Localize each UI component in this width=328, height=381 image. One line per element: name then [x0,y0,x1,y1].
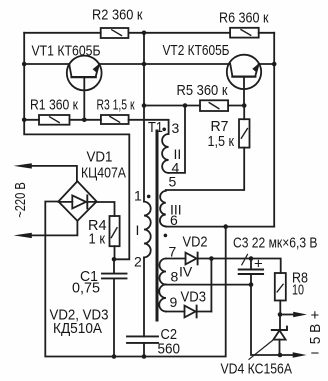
svg-text:VD4 КС156А: VD4 КС156А [221,361,293,378]
wire plus output arrow [280,314,294,316]
svg-text:C3 22 мк×6,3 В: C3 22 мк×6,3 В [233,235,318,252]
polarity dot winding IV [164,234,168,238]
transformer winding I [144,202,151,258]
label pointer line C3 [242,255,248,265]
wire plus line to C3 and R8 [211,259,280,274]
node VT1 base R1 R3 [82,118,87,123]
wire winding IV pin8 center tap to C3 minus [166,284,251,286]
node winding II pin4 riser [183,103,188,108]
svg-text:R2 360 к: R2 360 к [92,7,143,24]
node VD2 VD3 cathodes [209,256,214,261]
transformer winding IV lower half [159,285,166,312]
wire R7 bottom to winding III pin 5 [166,148,244,190]
transformer winding III [160,191,166,227]
node C3 minus [249,282,254,287]
svg-text:0,75: 0,75 [72,280,100,297]
svg-text:10: 10 [292,282,304,299]
node VT2 base R7 [242,103,247,108]
svg-text:R5 360 к: R5 360 к [177,82,228,99]
node VD4 ground [278,353,283,358]
wire AC input top with arrow [31,166,77,181]
svg-text:+: + [311,307,320,324]
svg-text:T1: T1 [148,119,163,136]
svg-text:IV: IV [179,264,193,280]
zener VD4 [279,315,281,331]
svg-text:2: 2 [134,254,142,270]
svg-text:+: + [254,256,263,273]
polarity dot winding II [162,128,166,132]
wire VT1 emitter to VT2 collector [99,63,229,65]
transformer T1 core [156,131,159,320]
resistor R2 [101,28,129,38]
wire right vertical R6 to VT2 emitter to winding III pin 6 [273,33,275,227]
wire VT2 emitter to right vertical [259,63,274,65]
wire left supply rail down to R4/C1 junction [24,33,129,259]
diode inside VD1 [58,201,96,203]
svg-text:8: 8 [171,269,179,285]
wire R1 left to rail [24,119,39,121]
wire pin6 vertical down and left ground rail and up to bridge [45,202,225,357]
svg-text:R3 1,5 к: R3 1,5 к [97,97,135,114]
node junction R2 output [142,31,147,36]
svg-text:5 В: 5 В [307,324,324,345]
capacitor C3 electrolytic [250,259,252,285]
svg-text:I: I [136,222,140,238]
svg-text:6: 6 [170,212,178,228]
wire minus output arrow [293,352,307,357]
node R8 VD4 plus output [278,312,283,317]
wire R8 bottom to plus output [279,301,281,315]
svg-text:560: 560 [158,341,181,358]
label pointer line VD4 [249,341,272,360]
node line A R5 row [142,103,147,108]
wire R7 top lead [243,106,245,120]
node right vertical VT2 [272,62,277,67]
node C2 ground [142,354,147,359]
wire top supply rail [24,32,274,34]
transformer winding IV upper half [160,259,167,285]
node line A at transistor wire [142,62,147,67]
resistor R5 [200,100,228,111]
diode VD2 [166,258,211,260]
wire C3 minus down to output minus rail [251,285,294,355]
svg-text:3: 3 [172,120,180,136]
svg-text:VT1 КТ605Б: VT1 КТ605Б [32,43,101,60]
wire R1 to VT1 base node [70,119,101,121]
capacitor C2 [127,336,158,343]
svg-text:VT2 КТ605Б: VT2 КТ605Б [163,42,230,59]
node left rail VT1 [22,62,27,67]
resistor R3 [101,115,129,124]
wire VT1 collector to left rail [24,63,69,65]
wire winding III pin 6 line [166,226,274,228]
resistor R6 [230,28,259,38]
wire base feed at y=105 R5 row [144,105,244,107]
svg-text:VD1: VD1 [87,149,113,166]
node pin6 to ground vertical [223,224,228,229]
resistor R7 [239,119,250,147]
svg-text:~220 В: ~220 В [12,182,29,218]
node C3 plus [249,256,254,261]
bridge rectifier VD1 diamond [58,181,96,221]
svg-text:1: 1 [134,188,142,204]
svg-text:5: 5 [169,174,177,190]
svg-text:VD3: VD3 [181,289,207,306]
diode VD3 [166,311,211,313]
wire VD3 cathode riser to VD2 cathode [210,259,212,312]
wire R4 top lead to bridge plus [97,202,115,216]
wire line A from R2 junction down to winding I [143,33,145,202]
svg-text:−: − [311,345,320,362]
resistor R4 [110,216,120,246]
transistor VT2 [227,55,261,89]
wire winding I pin2 down to C2 [143,257,145,336]
resistor R1 [39,115,70,125]
svg-text:9: 9 [170,294,178,310]
resistor R8 [275,273,286,301]
svg-text:КД510А: КД510А [53,320,102,337]
node C1 ground [112,354,117,359]
polarity dot winding I [147,195,151,199]
capacitor C1 [113,259,115,356]
svg-text:КЦ407А: КЦ407А [81,165,126,182]
wire AC input bottom with arrow [31,221,77,236]
svg-text:VD2: VD2 [183,234,208,251]
svg-text:1 к: 1 к [89,231,106,248]
wire winding II pin4 riser [169,106,185,173]
node R4 C1 junction [112,257,117,262]
svg-text:1,5 к: 1,5 к [208,133,235,150]
wire R4 bottom lead [114,246,116,259]
transformer winding II [162,134,168,173]
wire R3 right to winding II pin 3 [129,120,169,134]
svg-text:7: 7 [169,244,177,260]
node left rail R1 [22,118,27,123]
svg-text:R6 360 к: R6 360 к [219,10,269,27]
transistor VT1 [67,56,102,91]
svg-text:R1 360 к: R1 360 к [30,97,78,114]
